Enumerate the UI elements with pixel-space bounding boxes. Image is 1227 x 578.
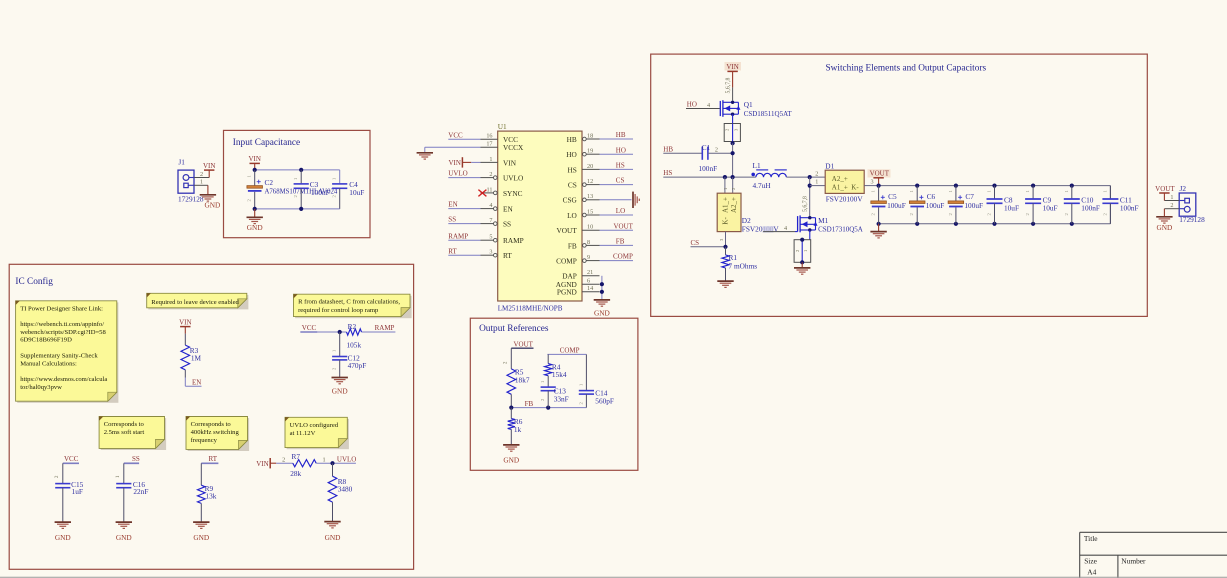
svg-text:VOUT: VOUT (557, 226, 578, 235)
svg-text:UVLO configured: UVLO configured (290, 422, 339, 429)
svg-text:A1_+: A1_+ (722, 197, 730, 213)
svg-text:100uF: 100uF (926, 201, 945, 210)
pin 7 SS of U1 (left) (481, 217, 512, 229)
svg-text:4: 4 (707, 102, 710, 109)
svg-text:105k: 105k (347, 340, 362, 349)
svg-text:GND: GND (193, 533, 209, 542)
pin 18 HB of U1 (right) (567, 132, 600, 144)
net label CS (U1) (600, 177, 634, 185)
sheet bottom edge (0, 576, 1227, 578)
ground (J1) (200, 185, 221, 209)
section box: IC Config (9, 264, 413, 569)
ground (CSG, rotated) (633, 192, 639, 208)
inductor L1 4.7uH (751, 161, 786, 190)
note: corresponds to 400kHz switching frequency (186, 417, 249, 452)
svg-text:J2: J2 (1180, 184, 1187, 193)
pin 19 HO of U1 (right) (566, 148, 599, 160)
capacitor C3 100nF (293, 170, 329, 209)
svg-text:C7: C7 (965, 192, 974, 201)
svg-text:GND: GND (204, 200, 220, 209)
svg-text:Output References: Output References (479, 323, 549, 334)
svg-text:A4: A4 (1087, 568, 1096, 577)
svg-text:1729128: 1729128 (1179, 215, 1205, 224)
pin 4 EN of U1 (left) (481, 202, 514, 214)
note: TI Power Designer link (16, 301, 119, 403)
resistor R5 18k7 (507, 368, 530, 408)
wire Q1 source to HS node (732, 143, 734, 177)
svg-text:19: 19 (587, 148, 593, 155)
svg-text:U1: U1 (498, 122, 507, 131)
svg-text:1: 1 (200, 179, 203, 186)
net label EN / wire (R3) (185, 370, 201, 387)
net label COMP (U1) (600, 253, 634, 261)
capacitor C4 10uF (332, 177, 365, 209)
svg-text:18k7: 18k7 (515, 375, 530, 384)
svg-text:Number: Number (1121, 556, 1146, 565)
section box: Switching Elements and Output Capacitors (651, 54, 1148, 316)
diode D1 FSV20100V (825, 162, 864, 204)
pin 21 DAP of U1 (right) (562, 269, 599, 281)
capacitor C14 560pF (578, 354, 614, 407)
svg-text:VCC: VCC (302, 324, 317, 332)
svg-text:1: 1 (1170, 194, 1173, 201)
svg-text:SYNC: SYNC (503, 189, 523, 198)
svg-text:VIN: VIN (726, 63, 738, 71)
ground (R8) (324, 522, 340, 543)
pin 6 AGND of U1 (right) (556, 278, 600, 290)
ground (R1) (717, 281, 733, 287)
pin 5 RAMP of U1 (left) (481, 234, 524, 246)
net label COMP / wire COMP rail (547, 347, 586, 355)
ground (J2) (1156, 209, 1172, 233)
note: UVLO configured at 11.12V (285, 417, 349, 449)
M1 source pins block (794, 230, 811, 264)
capacitor C6 100uF (polarized) (909, 186, 944, 224)
svg-text:GND: GND (503, 456, 519, 465)
transistor Q1 CSD18511Q5AT (720, 100, 792, 118)
ground (U1 AGND/PGND) (594, 300, 610, 318)
wire VIN top rail (255, 170, 340, 183)
capacitor C15 1uF (55, 480, 83, 522)
wire Q1 drain (732, 100, 734, 102)
power port VIN (R7) (256, 458, 276, 468)
resistor R1 7mOhms (722, 247, 757, 281)
capacitor C13 33nF (540, 380, 569, 408)
svg-text:UVLO: UVLO (503, 174, 523, 183)
net label RT (U1) (448, 247, 480, 255)
gate wire LO to M1 (763, 225, 798, 233)
svg-text:FSV20100V: FSV20100V (826, 195, 864, 204)
svg-text:1: 1 (489, 156, 492, 163)
svg-text:GND: GND (116, 533, 132, 542)
node junctions top rail (253, 168, 304, 172)
power port VIN (Q1 drain) (725, 62, 742, 100)
net label HB / wire (C1) (663, 145, 702, 153)
svg-text:1M: 1M (191, 353, 202, 362)
pin 14 PGND of U1 (right) (557, 285, 600, 297)
svg-text:C6: C6 (927, 192, 936, 201)
wire R7 to UVLO (316, 456, 356, 465)
svg-text:VIN: VIN (256, 460, 268, 468)
capacitor C5 100uF (polarized) (871, 186, 906, 224)
svg-text:10uF: 10uF (1043, 203, 1058, 212)
svg-text:VOUT: VOUT (870, 170, 890, 178)
svg-text:RT: RT (448, 247, 457, 255)
pin 2 UVLO of U1 (left) (481, 171, 524, 183)
svg-text:https://www.desmos.com/calcula: https://www.desmos.com/calcula (20, 376, 107, 383)
connector J1 1729128 (178, 157, 204, 203)
svg-text:HO: HO (616, 146, 626, 154)
svg-text:16: 16 (486, 133, 492, 140)
svg-text:1k: 1k (514, 425, 522, 434)
net label FB (U1) (600, 238, 634, 246)
pin 10 VOUT of U1 (right) (557, 224, 600, 236)
svg-text:GND: GND (332, 386, 348, 395)
svg-text:2: 2 (715, 147, 718, 154)
wire L1 to D1 node (786, 175, 825, 179)
svg-text:100uF: 100uF (887, 201, 906, 210)
svg-text:EN: EN (192, 378, 201, 386)
svg-text:M1: M1 (818, 216, 828, 225)
svg-text:560pF: 560pF (595, 397, 614, 406)
svg-text:HB: HB (663, 145, 673, 153)
svg-text:CSD17310Q5A: CSD17310Q5A (818, 225, 863, 233)
svg-text:TI Power Designer Share Link:: TI Power Designer Share Link: (20, 305, 103, 312)
net label HS / wire HS rail (663, 169, 756, 179)
svg-text:13: 13 (587, 193, 593, 200)
svg-text:HO: HO (687, 101, 697, 109)
capacitor C1 100nF (699, 143, 735, 173)
note: R from datasheet (294, 294, 412, 318)
wire bottom rail (input cap) (253, 207, 340, 211)
ground (input cap) (247, 209, 263, 232)
svg-text:7 mOhms: 7 mOhms (729, 261, 758, 270)
svg-text:Q1: Q1 (744, 100, 753, 109)
svg-text:VOUT: VOUT (614, 222, 634, 230)
svg-text:CS: CS (568, 181, 577, 190)
pin 2 lead of J1 (194, 171, 209, 178)
svg-text:LM25118MHE/NOPB: LM25118MHE/NOPB (498, 304, 563, 312)
svg-text:R from datasheet, C from calcu: R from datasheet, C from calculations, (298, 299, 400, 306)
svg-text:RAMP: RAMP (448, 232, 468, 240)
svg-text:HB: HB (616, 131, 626, 139)
net label RAMP (U1) (448, 232, 480, 240)
diode D2 FSV20100V (717, 177, 779, 247)
svg-text:GND: GND (1156, 223, 1172, 232)
Q1 source pins block (pins 2,3) (724, 124, 740, 146)
svg-text:Corresponds to: Corresponds to (191, 421, 232, 428)
net label CS / wire (R1) (691, 239, 728, 249)
svg-text:Supplementary Sanity-Check: Supplementary Sanity-Check (20, 352, 98, 359)
svg-text:SS: SS (503, 220, 511, 229)
pin 3 RT of U1 (left) (481, 249, 513, 261)
svg-text:FB: FB (616, 238, 625, 246)
svg-text:COMP: COMP (613, 253, 633, 261)
power port VIN (input cap) (248, 155, 260, 170)
svg-text:CSG: CSG (563, 196, 578, 205)
capacitor C8 10uF (987, 186, 1020, 224)
svg-text:VIN: VIN (179, 318, 191, 326)
svg-text:2.5ms soft start: 2.5ms soft start (104, 429, 145, 436)
svg-text:VIN: VIN (503, 158, 517, 167)
svg-text:VIN: VIN (203, 162, 215, 170)
connector J2 1729128 (1179, 184, 1205, 224)
capacitor C10 100nF (1064, 186, 1100, 224)
svg-text:20: 20 (587, 163, 593, 170)
capacitor C2 (polarized, A768MS107M1HLAV024) (247, 170, 338, 209)
svg-text:K-: K- (851, 183, 859, 191)
svg-text:SS: SS (132, 455, 140, 463)
pin 9 COMP of U1 (right) (556, 254, 599, 266)
svg-text:1729128: 1729128 (178, 194, 204, 203)
svg-text:100nF: 100nF (1120, 203, 1139, 212)
svg-text:CS: CS (691, 239, 700, 247)
wire Q1 source (732, 114, 734, 123)
svg-text:470pF: 470pF (348, 361, 367, 370)
svg-text:15k4: 15k4 (552, 370, 567, 379)
capacitor C7 100uF (polarized) (948, 186, 983, 224)
svg-text:7: 7 (489, 217, 492, 224)
svg-text:1: 1 (322, 456, 325, 463)
svg-text:3480: 3480 (338, 485, 353, 494)
svg-text:6: 6 (587, 278, 590, 285)
ground (C12) (332, 378, 348, 396)
resistor R7 28k (290, 452, 316, 478)
net label LO (U1) (600, 207, 634, 215)
svg-text:required for control loop ramp: required for control loop ramp (298, 307, 379, 314)
power port VIN (J1) (203, 162, 215, 178)
title block (1080, 532, 1227, 578)
svg-text:GND: GND (594, 309, 610, 318)
svg-text:VOUT: VOUT (1155, 185, 1175, 193)
svg-text:R7: R7 (292, 452, 301, 461)
svg-text:COMP: COMP (560, 347, 580, 355)
wire VIN to R7 (276, 456, 293, 463)
ground (M1) (794, 262, 810, 274)
net label HO / gate wire (Q1) (686, 101, 720, 109)
svg-text:A1_+: A1_+ (832, 183, 848, 191)
svg-text:2: 2 (815, 170, 818, 177)
svg-text:14: 14 (587, 285, 593, 292)
svg-text:A2_+: A2_+ (730, 197, 738, 213)
resistor R3 1M (181, 345, 202, 370)
net label FB / wire FB rail (509, 400, 586, 410)
power port VOUT (J2) (1155, 185, 1175, 201)
wire D1 pin3 to VOUT (864, 179, 878, 186)
power port VIN (R3) (179, 318, 191, 345)
svg-text:VOUT: VOUT (514, 340, 534, 348)
svg-text:Size: Size (1084, 556, 1097, 565)
svg-text:2: 2 (282, 456, 285, 463)
svg-text:11: 11 (487, 186, 493, 193)
net label EN (U1) (448, 201, 480, 209)
svg-text:VCCX: VCCX (503, 143, 524, 152)
svg-text:1uF: 1uF (72, 487, 83, 496)
svg-text:Corresponds to: Corresponds to (104, 421, 145, 428)
wire VCC to RAMP (300, 330, 395, 334)
svg-text:GND: GND (247, 223, 263, 232)
svg-text:HO: HO (566, 150, 577, 159)
power port VOUT (switching) (868, 169, 891, 185)
wire D1 pin1 (810, 170, 826, 185)
wire HS node down to M1 drain (808, 177, 812, 218)
svg-text:5,6,7,8: 5,6,7,8 (803, 196, 809, 212)
svg-text:5: 5 (489, 234, 492, 241)
power port SS (C16) (116, 455, 140, 483)
svg-text:EN: EN (448, 201, 457, 209)
wire CSG to ground (600, 199, 632, 201)
svg-text:FSV20100V: FSV20100V (742, 225, 780, 234)
net label HS (U1) (600, 162, 634, 170)
svg-text:4: 4 (784, 225, 787, 232)
svg-text:IC Config: IC Config (15, 276, 53, 287)
svg-text:C2: C2 (265, 178, 274, 187)
svg-text:SS: SS (448, 216, 456, 224)
svg-text:400kHz switching: 400kHz switching (191, 429, 240, 436)
svg-text:LO: LO (567, 211, 577, 220)
svg-text:UVLO: UVLO (337, 455, 356, 463)
capacitor C11 100nF (1102, 186, 1138, 224)
net label HB (U1) (600, 131, 634, 139)
net label VOUT (U1) (600, 222, 634, 230)
svg-text:https://webench.ti.com/appinfo: https://webench.ti.com/appinfo/ (20, 321, 104, 328)
pin 17 VCCX of U1 (left) (481, 141, 525, 153)
pin 11 SYNC of U1 (left) (481, 186, 523, 198)
svg-text:R2: R2 (348, 322, 357, 331)
svg-text:VCC: VCC (448, 131, 463, 139)
op-amp U1 LM25118MHE/NOPB body (498, 122, 582, 312)
svg-text:J1: J1 (178, 157, 185, 166)
svg-text:100uF: 100uF (964, 201, 983, 210)
pin 12 CS of U1 (right) (568, 178, 600, 190)
svg-text:15: 15 (587, 208, 593, 215)
svg-text:frequency: frequency (191, 437, 218, 444)
svg-text:33nF: 33nF (554, 394, 569, 403)
net label SS (U1) (448, 216, 480, 224)
wire VOUT rail (877, 184, 1111, 199)
svg-text:4.7uH: 4.7uH (753, 181, 772, 190)
svg-text:6D9C18B696F19D: 6D9C18B696F19D (20, 337, 72, 344)
svg-text:C1: C1 (702, 143, 711, 152)
ground (C16) (116, 522, 132, 542)
svg-text:RT: RT (209, 455, 218, 463)
capacitor C16 22nF (116, 480, 148, 522)
svg-text:Manual Calculations:: Manual Calculations: (20, 360, 77, 367)
note: corresponds to 2.5ms soft start (99, 417, 166, 451)
capacitor C12 470pF (332, 332, 367, 377)
svg-text:COMP: COMP (556, 257, 577, 266)
svg-text:CS: CS (616, 177, 625, 185)
svg-text:HS: HS (663, 169, 672, 177)
pin 15 LO of U1 (right) (567, 208, 599, 220)
svg-text:GND: GND (55, 533, 71, 542)
svg-text:22nF: 22nF (133, 487, 148, 496)
net label HO (U1) (600, 146, 634, 154)
svg-text:EN: EN (503, 205, 513, 214)
svg-text:HS: HS (616, 162, 625, 170)
power port VIN (U1) (448, 157, 480, 167)
svg-text:18: 18 (587, 132, 593, 139)
resistor R9 13k (198, 484, 217, 522)
svg-text:3: 3 (870, 179, 873, 186)
ground (R9) (193, 522, 209, 542)
svg-text:10: 10 (587, 224, 593, 231)
wire VCCX to ground (425, 147, 481, 152)
svg-text:tor/hal0qy3pvw: tor/hal0qy3pvw (20, 384, 62, 391)
svg-text:28k: 28k (290, 469, 301, 478)
svg-text:A2_+: A2_+ (832, 175, 848, 183)
resistor R8 3480 (328, 463, 352, 521)
svg-text:C5: C5 (888, 192, 897, 201)
power port VOUT (output refs) (504, 340, 534, 369)
svg-text:Switching Elements and Output: Switching Elements and Output Capacitors (826, 64, 987, 74)
ground (VCCX) (417, 153, 433, 159)
section box: Input Capacitance (224, 130, 371, 237)
svg-text:Required to leave device enabl: Required to leave device enabled (151, 299, 239, 306)
svg-text:VIN: VIN (248, 155, 260, 163)
wire output gnd rail (877, 203, 1111, 226)
svg-text:RT: RT (503, 251, 512, 260)
svg-text:RAMP: RAMP (503, 236, 524, 245)
pin 2 lead of J2 (1164, 202, 1179, 209)
svg-text:3: 3 (489, 249, 492, 256)
svg-text:FB: FB (525, 400, 534, 408)
svg-text:VCC: VCC (64, 455, 79, 463)
svg-text:at 11.12V: at 11.12V (290, 430, 316, 437)
section box: Output References (470, 318, 638, 470)
svg-text:VIN: VIN (448, 159, 460, 167)
resistor R2 105k (347, 322, 362, 349)
ground (R6) (503, 445, 519, 465)
pin 8 FB of U1 (right) (568, 239, 600, 251)
svg-text:4: 4 (489, 202, 492, 209)
svg-text:8: 8 (587, 239, 590, 246)
no-connect X on SYNC pin 11 (478, 190, 486, 197)
svg-text:HS: HS (567, 165, 576, 174)
transistor M1 CSD17310Q5A (798, 215, 863, 233)
svg-text:2: 2 (200, 171, 203, 178)
pin 13 CSG of U1 (right) (563, 193, 600, 205)
svg-text:2: 2 (489, 171, 492, 178)
power port VCC (R2) (300, 324, 317, 332)
svg-text:RAMP: RAMP (375, 324, 395, 332)
pin 16 VCC of U1 (left) (481, 133, 519, 145)
svg-text:1: 1 (815, 179, 818, 186)
net label VCC (U1) (448, 131, 480, 139)
resistor R4 15k4 (545, 354, 567, 386)
svg-text:PGND: PGND (557, 288, 577, 297)
svg-text:D1: D1 (825, 162, 834, 171)
power port RT (R9) (201, 455, 218, 485)
svg-text:GND: GND (325, 533, 341, 542)
resistor R6 1k (508, 408, 523, 445)
svg-text:L1: L1 (753, 161, 761, 170)
svg-text:HB: HB (567, 135, 577, 144)
svg-text:webench/scripts/SDP.cgi?ID=58: webench/scripts/SDP.cgi?ID=58 (20, 329, 106, 336)
svg-text:UVLO: UVLO (448, 170, 467, 178)
svg-text:12: 12 (587, 178, 593, 185)
svg-text:9: 9 (587, 254, 590, 261)
svg-text:5,6,7,8: 5,6,7,8 (726, 77, 732, 93)
pin 1 VIN of U1 (left) (481, 156, 517, 168)
svg-text:100nF: 100nF (1081, 203, 1100, 212)
pin 1 lead of J2 (1164, 194, 1179, 201)
capacitor C9 10uF (1025, 186, 1058, 224)
svg-text:CSD18511Q5AT: CSD18511Q5AT (744, 110, 793, 118)
svg-text:100nF: 100nF (311, 188, 330, 197)
svg-text:13k: 13k (206, 492, 217, 501)
svg-text:17: 17 (486, 141, 492, 148)
